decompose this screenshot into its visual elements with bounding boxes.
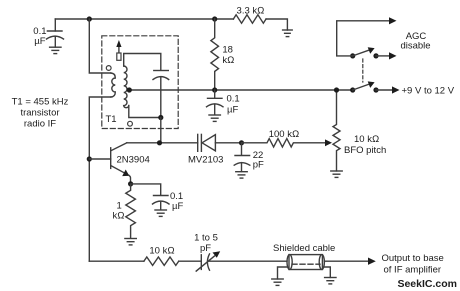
svg-text:10 kΩ: 10 kΩ: [354, 134, 379, 145]
ground (C4): [155, 210, 166, 216]
svg-text:2N3904: 2N3904: [117, 155, 150, 166]
svg-text:T1 = 455 kHz: T1 = 455 kHz: [12, 97, 69, 108]
svg-text:kΩ: kΩ: [222, 55, 234, 66]
svg-text:µF: µF: [172, 201, 183, 212]
tuning slug arrow: [116, 40, 121, 60]
resistor R4 100k: [242, 139, 327, 147]
ground (pot): [331, 171, 342, 177]
wire collector rail: [127, 142, 198, 144]
svg-text:MV2103: MV2103: [188, 155, 223, 166]
wire middle rail: [130, 89, 353, 91]
svg-text:BFO pitch: BFO pitch: [344, 145, 386, 156]
svg-text:Shielded cable: Shielded cable: [273, 243, 335, 254]
wire top rail to primary: [89, 19, 111, 73]
wire 3.3k to ground: [266, 19, 287, 30]
ground (C5): [236, 172, 247, 178]
ground (C1): [50, 47, 61, 53]
terminal hole upper: [106, 66, 111, 71]
ground (3.3k): [283, 30, 293, 37]
node varactor / 22pF / 100k: [239, 140, 244, 145]
node rail/pot junction: [334, 87, 339, 92]
wire bottom rail: [89, 260, 144, 262]
node top rail / 18k junction: [212, 16, 217, 21]
capacitor C6 trimmer 1-5pF: [196, 251, 220, 271]
node secondary/cap bottom: [158, 115, 163, 120]
wiper arrowhead into pot: [325, 139, 332, 146]
svg-text:100 kΩ: 100 kΩ: [269, 129, 300, 140]
wire secondary top bridge: [124, 54, 161, 71]
wire primary to base rail: [89, 97, 111, 261]
svg-text:radio IF: radio IF: [24, 119, 56, 130]
svg-text:18: 18: [222, 45, 233, 56]
switch S1a (AGC pole): [350, 47, 396, 59]
switch gang dashed link: [362, 59, 364, 82]
wire T1 bottom node to collector rail: [160, 118, 162, 143]
wire trimmer to cable: [208, 260, 287, 262]
ground (cable right): [325, 278, 336, 284]
resistor R3 1k: [126, 184, 136, 238]
arrowhead output: [368, 258, 376, 265]
wire AGC disable out: [337, 21, 389, 56]
wire cable to output: [324, 260, 368, 262]
capacitor C3 0.1uF mid: [207, 90, 224, 115]
svg-text:kΩ: kΩ: [113, 211, 125, 222]
terminal hole lower: [128, 121, 133, 126]
svg-text:10 kΩ: 10 kΩ: [149, 246, 174, 257]
capacitor C4 0.1uF emitter: [131, 184, 169, 210]
diode D1 MV2103 varactor: [198, 134, 242, 151]
shielded cable: [287, 255, 324, 270]
transistor Q1 2N3904: [89, 143, 130, 184]
node emitter junction: [128, 181, 133, 186]
svg-text:T1: T1: [106, 114, 117, 125]
resistor R1 3.3k: [233, 15, 266, 23]
resistor R6 10k: [144, 257, 179, 265]
wire secondary bottom: [129, 106, 161, 118]
svg-text:+9 V to 12 V: +9 V to 12 V: [402, 86, 455, 97]
arrowhead AGC out: [389, 17, 397, 24]
node top rail / primary junction: [87, 16, 92, 21]
node base junction: [87, 156, 92, 161]
svg-text:SeekIC.com: SeekIC.com: [397, 278, 457, 290]
svg-text:Output to base: Output to base: [382, 253, 444, 264]
transformer T1 shield box (dashed): [102, 36, 178, 129]
svg-text:µF: µF: [34, 36, 45, 47]
switch S1b (+9V pole): [350, 81, 399, 93]
ground (C3): [209, 115, 220, 121]
svg-text:1 to 5: 1 to 5: [194, 233, 218, 244]
wire cable shield right ground: [324, 267, 330, 277]
resistor R2 18k: [211, 19, 219, 90]
wire cap bottom to node: [160, 78, 162, 118]
transformer secondary winding: [124, 66, 129, 108]
svg-text:pF: pF: [253, 160, 264, 171]
capacitor inside T1 can: [153, 71, 169, 80]
svg-text:of IF amplifier: of IF amplifier: [384, 265, 442, 276]
svg-text:µF: µF: [227, 105, 238, 116]
node collector junction: [157, 140, 162, 145]
capacitor C5 22pF: [234, 143, 250, 172]
svg-text:3.3 kΩ: 3.3 kΩ: [237, 6, 265, 17]
svg-text:0.1: 0.1: [227, 94, 240, 105]
wire cable shield left ground: [278, 267, 288, 279]
wire top rail: [55, 18, 233, 20]
svg-text:pF: pF: [200, 243, 211, 254]
node middle rail / 18k-C3: [212, 87, 217, 92]
svg-text:transistor: transistor: [20, 108, 59, 119]
wire 10k to trimmer: [179, 260, 202, 262]
ground (cable left): [272, 279, 283, 285]
potentiometer R5 10k BFO pitch: [333, 90, 340, 171]
node secondary center tap: [127, 87, 132, 92]
ground (R3): [125, 239, 136, 245]
capacitor C1 0.1uF top-left: [47, 19, 64, 47]
transformer primary winding: [111, 73, 116, 97]
svg-text:disable: disable: [400, 41, 430, 52]
